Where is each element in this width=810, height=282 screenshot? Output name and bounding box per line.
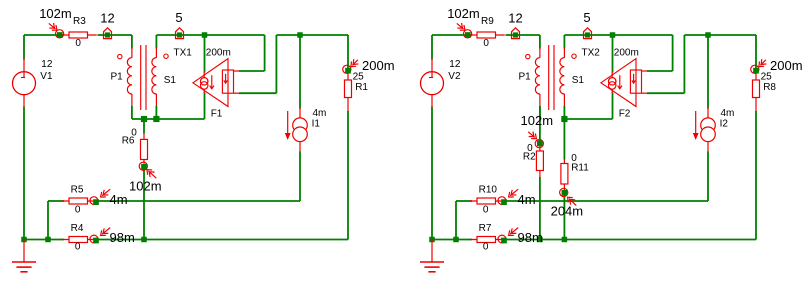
svg-text:12: 12 [449,59,461,70]
svg-text:5: 5 [175,10,182,25]
svg-text:0: 0 [75,241,81,252]
svg-text:R1: R1 [355,82,368,93]
svg-text:0: 0 [75,205,81,216]
svg-text:102m: 102m [521,113,554,128]
svg-text:TX1: TX1 [174,48,193,59]
svg-text:4m: 4m [518,192,536,207]
svg-text:200m: 200m [362,58,395,73]
svg-text:R10: R10 [479,185,498,196]
svg-text:V2: V2 [448,71,461,82]
svg-text:R9: R9 [481,16,494,27]
svg-text:R8: R8 [763,82,776,93]
svg-text:R6: R6 [122,136,135,147]
svg-text:V1: V1 [40,71,53,82]
svg-text:F1: F1 [211,108,223,119]
svg-text:5: 5 [583,10,590,25]
svg-text:4m: 4m [313,108,327,119]
svg-text:P1: P1 [111,71,124,82]
svg-text:0: 0 [483,241,489,252]
svg-text:12: 12 [41,59,53,70]
svg-text:S1: S1 [572,75,585,86]
svg-text:0: 0 [75,38,81,49]
svg-text:R2: R2 [523,151,536,162]
svg-text:25: 25 [761,71,773,82]
svg-text:204m: 204m [551,204,584,219]
svg-text:0: 0 [483,38,489,49]
svg-text:R5: R5 [71,185,84,196]
svg-text:200m: 200m [770,58,803,73]
svg-text:25: 25 [353,71,365,82]
svg-text:0: 0 [483,205,489,216]
svg-text:12: 12 [508,10,522,25]
svg-text:102m: 102m [129,178,162,193]
svg-text:4m: 4m [110,192,128,207]
svg-text:200m: 200m [206,47,231,58]
svg-text:12: 12 [100,10,114,25]
svg-text:4m: 4m [721,108,735,119]
svg-text:TX2: TX2 [582,48,601,59]
svg-text:I1: I1 [312,118,321,129]
svg-text:I2: I2 [720,118,729,129]
svg-text:S1: S1 [164,75,177,86]
svg-text:R4: R4 [71,223,84,234]
svg-text:F2: F2 [619,108,631,119]
svg-text:98m: 98m [110,230,135,245]
svg-text:R7: R7 [479,223,492,234]
svg-text:98m: 98m [518,230,543,245]
svg-text:102m: 102m [447,6,480,21]
svg-text:R11: R11 [571,163,589,174]
svg-text:200m: 200m [614,47,639,58]
svg-text:102m: 102m [39,6,72,21]
svg-text:P1: P1 [519,71,532,82]
svg-text:R3: R3 [73,16,86,27]
